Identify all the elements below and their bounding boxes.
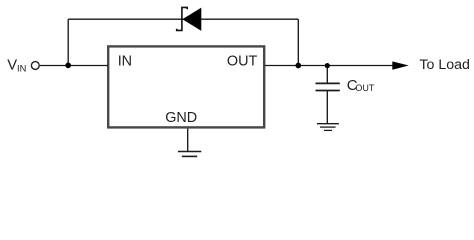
svg-text:IN: IN [118, 54, 132, 70]
wire capacitor branch lower [326, 91, 328, 124]
wire capacitor branch upper [326, 66, 328, 84]
wire input VIN to box [40, 65, 108, 67]
capacitor COUT bottom plate [316, 90, 340, 92]
junction dot left [65, 63, 71, 69]
diode D1 schottky cathode bar [177, 7, 188, 30]
svg-text:IN: IN [17, 64, 26, 74]
arrow To Load [392, 61, 409, 69]
svg-text:V: V [7, 58, 17, 74]
regulator box U1 [108, 46, 264, 127]
svg-text:OUT: OUT [227, 54, 258, 70]
junction dot capacitor tap [325, 63, 330, 68]
svg-text:To Load: To Load [419, 57, 470, 73]
wire output box to arrow [265, 65, 393, 67]
wire GND pin [187, 129, 189, 152]
diode D1 triangle (anode, pointing left) [183, 8, 201, 30]
ground (capacitor) [317, 124, 339, 131]
ground (GND pin) [178, 152, 201, 157]
capacitor COUT top plate [316, 82, 340, 84]
wire left vertical riser [67, 19, 69, 65]
terminal circle VIN [31, 62, 39, 70]
junction dot right [295, 63, 301, 69]
wire right vertical drop [297, 19, 299, 65]
svg-text:OUT: OUT [355, 83, 375, 93]
svg-text:GND: GND [165, 110, 197, 126]
wire top horizontal through diode [68, 18, 298, 20]
